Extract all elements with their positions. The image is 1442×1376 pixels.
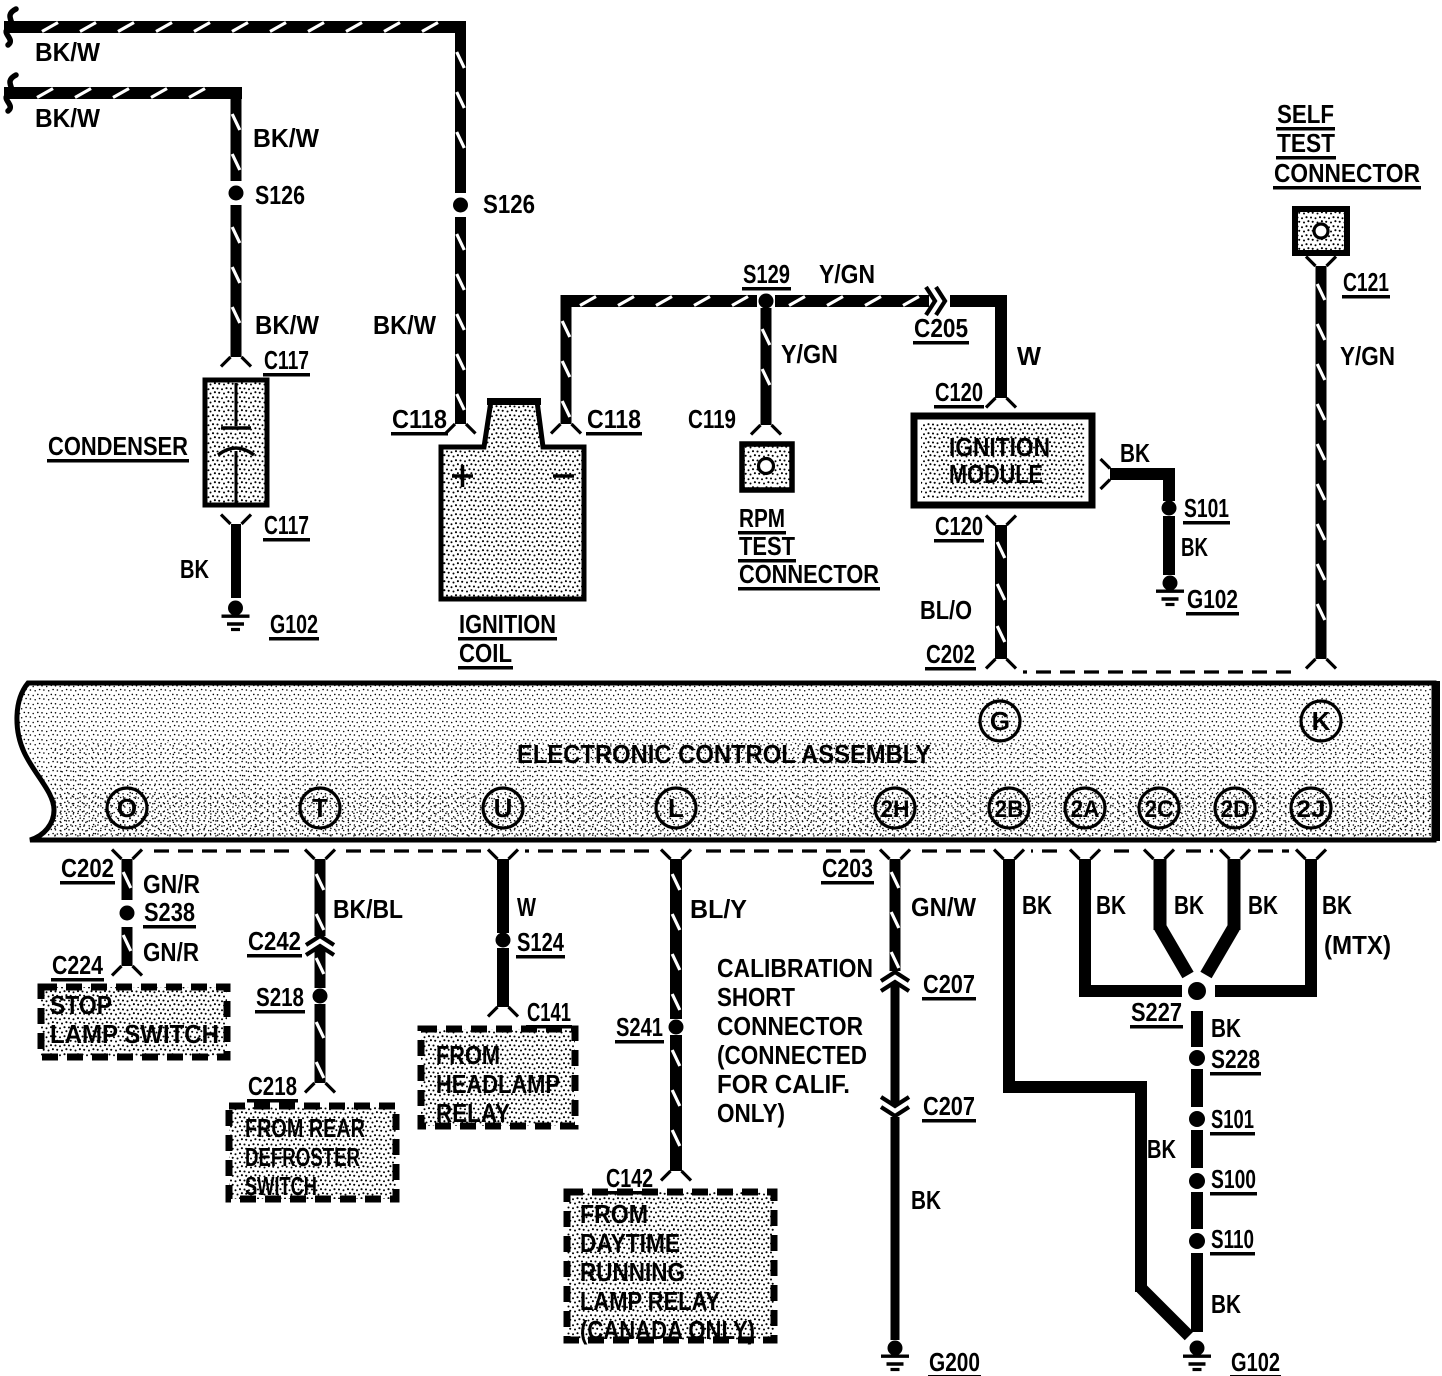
junction S228: [1189, 1050, 1205, 1066]
label S124: [516, 927, 565, 959]
svg-text:C141: C141: [527, 997, 571, 1027]
wire BK/W second horizontal: [4, 87, 242, 99]
connector C205 chevrons: [926, 287, 945, 315]
connector C207 lower chevrons: [881, 1097, 909, 1116]
svg-text:BK/W: BK/W: [35, 103, 100, 133]
ECA pin 2H: [875, 788, 915, 828]
connector fork above K pin: [1306, 659, 1336, 669]
label G102 bottom: [1230, 1347, 1281, 1376]
svg-text:C207: C207: [923, 969, 975, 999]
svg-text:S110: S110: [1211, 1224, 1254, 1254]
svg-text:C119: C119: [688, 404, 736, 434]
svg-text:C120: C120: [935, 511, 983, 541]
wire GN/W pin 2H: [890, 859, 901, 971]
label BK 2B: [1022, 890, 1052, 920]
svg-text:C218: C218: [248, 1071, 297, 1101]
ground G102 module: [1156, 576, 1184, 605]
wire BK S227 to S228: [1191, 1011, 1203, 1047]
svg-text:DEFROSTER: DEFROSTER: [245, 1142, 360, 1172]
label BL/Y: [690, 894, 747, 924]
label W pin U: [517, 892, 536, 922]
label C121: [1342, 267, 1390, 299]
label FROM REAR DEFROSTER SWITCH: [245, 1113, 365, 1201]
label C242: [247, 926, 302, 958]
svg-text:FROM: FROM: [580, 1199, 648, 1229]
label BK below S101: [1181, 532, 1208, 562]
wire Y/GN vertical to coil right C118: [561, 295, 572, 424]
label S101 chain: [1210, 1104, 1255, 1136]
label STOP LAMP SWITCH: [50, 990, 219, 1049]
headlamp relay box: [421, 1029, 575, 1126]
connector fork below pin 2H: [880, 850, 910, 860]
wire BK/BL below C242: [315, 947, 326, 988]
svg-text:G102: G102: [1187, 584, 1238, 614]
svg-text:BK: BK: [180, 554, 209, 584]
connector C224 fork: [112, 966, 142, 976]
self test connector body: [1295, 209, 1347, 253]
junction S124: [496, 933, 511, 948]
junction S227: [1188, 982, 1206, 1000]
svg-text:FROM: FROM: [436, 1040, 500, 1070]
svg-text:BK: BK: [1248, 890, 1278, 920]
svg-text:BK/BL: BK/BL: [333, 894, 403, 924]
wire BK pin 2C to S227: [1154, 859, 1189, 975]
label BK 2J: [1322, 890, 1352, 920]
svg-text:S241: S241: [616, 1012, 663, 1042]
ground G102 condenser: [222, 601, 250, 630]
connector C202 fork bottom of BL/O: [986, 659, 1016, 669]
svg-text:ELECTRONIC CONTROL ASSEMBLY: ELECTRONIC CONTROL ASSEMBLY: [517, 739, 931, 769]
wire GN/R pin O lower: [122, 927, 133, 966]
connector fork below pin 2C: [1144, 850, 1174, 860]
svg-text:BL/O: BL/O: [920, 595, 972, 625]
connector fork module right: [1101, 459, 1111, 489]
wire BK/W vertical to C118: [455, 27, 466, 424]
label G200: [928, 1347, 981, 1376]
label RPM TEST CONNECTOR: [738, 503, 880, 591]
label S100: [1210, 1164, 1257, 1196]
label GN/R lower: [143, 937, 199, 967]
svg-text:(CONNECTED: (CONNECTED: [717, 1040, 867, 1070]
svg-text:BK/W: BK/W: [253, 123, 319, 153]
connector C119 fork: [751, 425, 781, 435]
connector C120 fork top: [986, 398, 1016, 408]
electronic control assembly ECA body: [17, 681, 1440, 841]
wire BK S110 to G102: [1191, 1253, 1203, 1332]
svg-text:BL/Y: BL/Y: [690, 894, 747, 924]
svg-text:STOP: STOP: [50, 990, 112, 1020]
label BK module: [1120, 438, 1150, 468]
wire BK/BL S218 to C218: [315, 1004, 326, 1083]
wire BK pin 2D to S227: [1206, 859, 1241, 975]
wire BK (MTX) pin 2J to S227: [1215, 859, 1317, 997]
connector fork below pin O: [112, 850, 142, 860]
wire break symbol left end top wire: [6, 9, 16, 45]
svg-text:W: W: [1017, 341, 1041, 371]
wire Y/GN self test to ECA: [1316, 266, 1327, 659]
svg-text:C120: C120: [935, 377, 983, 407]
ECA pin U: [483, 788, 523, 828]
label C203: [821, 853, 874, 885]
svg-text:2C: 2C: [1145, 796, 1174, 823]
svg-text:S218: S218: [256, 982, 304, 1012]
svg-text:BK: BK: [1211, 1013, 1241, 1043]
svg-text:2H: 2H: [881, 796, 910, 823]
svg-text:C207: C207: [923, 1091, 975, 1121]
junction S101 right of module: [1162, 501, 1177, 516]
label S110: [1210, 1224, 1255, 1256]
svg-text:C118: C118: [587, 404, 641, 434]
junction S126 left: [229, 186, 244, 201]
label C205: [913, 313, 969, 345]
svg-text:2D: 2D: [1221, 796, 1250, 823]
svg-text:C202: C202: [926, 639, 975, 669]
label C119: [688, 404, 736, 434]
svg-text:RPM: RPM: [739, 503, 785, 533]
svg-text:CONDENSER: CONDENSER: [48, 431, 188, 461]
RPM test connector body: [742, 444, 792, 490]
connector C141 fork: [488, 1007, 518, 1017]
svg-text:G102: G102: [1231, 1347, 1280, 1376]
wire C202/C203 connector dashed line below ECA: [130, 849, 1316, 852]
label BK/W wire1: [35, 37, 100, 67]
label BK/BL: [333, 894, 403, 924]
svg-text:SHORT: SHORT: [717, 982, 795, 1012]
label BK 2C: [1174, 890, 1204, 920]
wire BK pin 2B down-right-down to G102: [1003, 859, 1189, 1336]
label C207 upper: [922, 969, 976, 1001]
label GN/W: [911, 892, 976, 922]
label (MTX): [1324, 930, 1391, 960]
ECA pin 2C: [1139, 788, 1179, 828]
svg-text:2A: 2A: [1071, 796, 1100, 823]
svg-text:BK: BK: [1181, 532, 1208, 562]
label G102 condenser: [269, 609, 319, 641]
ground G200: [881, 1341, 909, 1370]
svg-text:C121: C121: [1343, 267, 1389, 297]
label C118 right: [586, 404, 642, 436]
label BK 2B elbow: [1147, 1134, 1176, 1164]
coil - terminal mark: [553, 474, 574, 478]
label C141: [526, 997, 572, 1029]
ECA pin 2B: [989, 788, 1029, 828]
svg-text:HEADLAMP: HEADLAMP: [436, 1069, 560, 1099]
connector C117 fork above condenser: [221, 357, 251, 367]
svg-text:SWITCH: SWITCH: [245, 1171, 317, 1201]
label CALIBRATION SHORT CONNECTOR note: [717, 953, 873, 1128]
svg-text:S227: S227: [1131, 997, 1182, 1027]
dashed line gaps at connector forks: [105, 665, 1343, 858]
svg-text:(CANADA ONLY): (CANADA ONLY): [580, 1315, 755, 1345]
wire W pin U upper: [497, 859, 509, 933]
connector fork below pin T: [305, 850, 335, 860]
svg-text:BK: BK: [1120, 438, 1150, 468]
junction S100: [1189, 1173, 1205, 1189]
connector C120 fork bottom: [986, 516, 1016, 526]
svg-text:S126: S126: [483, 189, 535, 219]
label BK 2D: [1248, 890, 1278, 920]
wire BK S100 to S110: [1191, 1192, 1203, 1229]
wire BK/BL pin T upper: [315, 859, 326, 936]
label C118 left: [391, 404, 448, 436]
wire W from C205 to ignition module: [950, 295, 1007, 398]
ECA pin L: [656, 788, 696, 828]
svg-text:COIL: COIL: [459, 638, 512, 668]
connector fork below pin L: [661, 850, 691, 860]
svg-text:FROM REAR: FROM REAR: [245, 1113, 365, 1143]
svg-text:BK: BK: [1211, 1289, 1241, 1319]
svg-text:LAMP RELAY: LAMP RELAY: [580, 1286, 720, 1316]
svg-text:C118: C118: [392, 404, 447, 434]
svg-text:S101: S101: [1211, 1104, 1254, 1134]
label BK/W vert right: [373, 310, 436, 340]
connector fork below pin U: [488, 850, 518, 860]
svg-text:O: O: [117, 793, 137, 823]
label BK 2A: [1096, 890, 1126, 920]
svg-text:CALIBRATION: CALIBRATION: [717, 953, 873, 983]
svg-text:BK: BK: [911, 1185, 941, 1215]
label ELECTRONIC CONTROL ASSEMBLY: [517, 739, 931, 769]
svg-text:T: T: [312, 793, 328, 823]
junction S101 chain: [1189, 1111, 1205, 1127]
wire BK condenser to ground: [231, 524, 241, 598]
connector C118 fork right terminal: [551, 424, 581, 434]
label C117 lower: [263, 510, 310, 542]
wire break symbol left end second wire: [6, 75, 16, 111]
label SELF TEST CONNECTOR: [1273, 99, 1421, 190]
wire Y/GN horizontal S129 bus: [566, 295, 929, 307]
connector C117 fork below condenser: [221, 515, 251, 525]
ignition module body: [914, 416, 1092, 505]
svg-text:ONLY): ONLY): [717, 1098, 785, 1128]
label CONDENSER: [47, 431, 189, 463]
svg-text:K: K: [1312, 706, 1331, 736]
label C117 upper: [263, 345, 310, 377]
label S238: [143, 897, 196, 929]
label C120 bottom: [934, 511, 984, 543]
svg-text:LAMP SWITCH: LAMP SWITCH: [50, 1019, 219, 1049]
wire BK module to S101: [1110, 468, 1175, 501]
svg-text:IGNITION: IGNITION: [949, 432, 1050, 462]
label S126 left: [255, 180, 305, 210]
connector C218 fork: [305, 1083, 335, 1093]
label IGNITION COIL: [458, 609, 557, 670]
label FROM DAYTIME RUNNING LAMP RELAY: [580, 1199, 755, 1345]
label BK above G200: [911, 1185, 941, 1215]
svg-text:RELAY: RELAY: [436, 1098, 510, 1128]
ground G102 bottom: [1183, 1341, 1211, 1370]
wire BK/W top horizontal: [4, 21, 466, 33]
label BL/O: [920, 595, 972, 625]
svg-text:S238: S238: [144, 897, 195, 927]
label S227: [1130, 997, 1183, 1029]
connector fork below pin 2B: [994, 850, 1024, 860]
svg-text:C117: C117: [264, 510, 309, 540]
connector C142 fork: [661, 1171, 691, 1181]
stop lamp switch box: [41, 987, 227, 1057]
label C142: [605, 1163, 654, 1195]
svg-text:U: U: [494, 793, 513, 823]
connector C242 chevrons: [306, 936, 334, 955]
svg-text:RUNNING: RUNNING: [580, 1257, 685, 1287]
label C202 left: [60, 853, 115, 885]
rear defroster switch box: [229, 1106, 396, 1199]
label BK/W wire2: [35, 103, 100, 133]
svg-text:BK/W: BK/W: [35, 37, 100, 67]
svg-text:BK/W: BK/W: [373, 310, 436, 340]
svg-text:BK: BK: [1147, 1134, 1176, 1164]
svg-text:BK: BK: [1174, 890, 1204, 920]
label S129: [742, 259, 791, 291]
connector C118 fork left terminal: [446, 424, 476, 434]
svg-text:BK/W: BK/W: [255, 310, 319, 340]
label C120 top: [934, 377, 984, 409]
svg-text:Y/GN: Y/GN: [1340, 341, 1395, 371]
junction S110: [1189, 1233, 1205, 1249]
label S241: [615, 1012, 664, 1044]
wire W S124 to C141: [497, 948, 509, 1007]
ECA pin T: [300, 788, 340, 828]
connector fork below pin 2D: [1220, 850, 1250, 860]
junction S126 right: [453, 198, 468, 213]
label C207 lower: [922, 1091, 976, 1123]
label S101 module: [1183, 493, 1230, 525]
label S126 right: [483, 189, 535, 219]
label S228: [1210, 1044, 1261, 1076]
svg-text:CONNECTOR: CONNECTOR: [739, 559, 879, 589]
label W: [1017, 341, 1041, 371]
label C202 mid: [925, 639, 976, 671]
label G102 module: [1186, 584, 1239, 616]
label C218: [247, 1071, 298, 1103]
svg-text:DAYTIME: DAYTIME: [580, 1228, 680, 1258]
label BK/W above condenser: [255, 310, 319, 340]
ECA pin O: [107, 788, 147, 828]
svg-text:S126: S126: [255, 180, 305, 210]
label GN/R upper: [143, 869, 200, 899]
svg-text:G102: G102: [270, 609, 318, 639]
svg-text:S100: S100: [1211, 1164, 1256, 1194]
wire BK between C207 connectors: [891, 984, 900, 1104]
svg-text:C202: C202: [61, 853, 114, 883]
label FROM HEADLAMP RELAY: [436, 1040, 560, 1128]
svg-text:G: G: [990, 706, 1010, 736]
wire Y/GN from S129 down to C119: [761, 308, 772, 425]
label BK S227 chain: [1211, 1013, 1241, 1043]
label C224: [51, 950, 104, 982]
svg-text:GN/R: GN/R: [143, 937, 199, 967]
svg-text:Y/GN: Y/GN: [781, 339, 838, 369]
wire BK S228 to S101: [1191, 1069, 1203, 1107]
svg-text:L: L: [668, 793, 684, 823]
svg-text:CONNECTOR: CONNECTOR: [1274, 158, 1420, 188]
svg-text:C242: C242: [248, 926, 301, 956]
wire BK pin 2A to S227: [1079, 859, 1182, 997]
svg-text:C117: C117: [264, 345, 309, 375]
svg-text:2J: 2J: [1297, 796, 1326, 823]
label S218: [255, 982, 305, 1014]
coil + terminal mark: [452, 465, 473, 487]
svg-text:S129: S129: [743, 259, 790, 289]
svg-text:GN/W: GN/W: [911, 892, 976, 922]
wire BK/W vertical to condenser: [231, 93, 242, 357]
wire BK S101 to G102: [1163, 516, 1175, 575]
svg-text:W: W: [517, 892, 536, 922]
junction S218: [313, 989, 328, 1004]
connector fork below pin 2J: [1296, 850, 1326, 860]
wire C202 connector dashed line above ECA (G to K): [1012, 670, 1310, 673]
svg-text:IGNITION: IGNITION: [459, 609, 556, 639]
connector C121 fork: [1306, 257, 1336, 267]
label BK condenser: [180, 554, 209, 584]
wire BL/Y pin L upper: [670, 859, 682, 1019]
ECA pin 2D: [1215, 788, 1255, 828]
ECA pin G: [980, 701, 1020, 741]
junction S129: [759, 294, 774, 309]
svg-text:S228: S228: [1211, 1044, 1260, 1074]
daytime running lamp relay box: [567, 1192, 774, 1340]
wire GN/R pin O upper: [122, 859, 133, 900]
svg-text:C224: C224: [52, 950, 103, 980]
svg-text:TEST: TEST: [1277, 128, 1335, 158]
svg-text:BK: BK: [1096, 890, 1126, 920]
junction S238: [120, 906, 135, 921]
svg-text:C203: C203: [822, 853, 873, 883]
svg-text:BK: BK: [1022, 890, 1052, 920]
connector C207 upper chevrons: [881, 972, 909, 991]
label Y/GN drop: [781, 339, 838, 369]
svg-text:FOR CALIF.: FOR CALIF.: [717, 1069, 850, 1099]
wire BK C207 to G200: [891, 1117, 900, 1340]
svg-text:GN/R: GN/R: [143, 869, 200, 899]
label BK above G102: [1211, 1289, 1241, 1319]
svg-text:2B: 2B: [995, 796, 1024, 823]
svg-text:BK: BK: [1322, 890, 1352, 920]
svg-text:S124: S124: [517, 927, 564, 957]
ECA pin K: [1301, 701, 1341, 741]
ECA pin 2A: [1065, 788, 1105, 828]
wire BL/O module to C202: [995, 525, 1007, 659]
label BK/W mid left: [253, 123, 319, 153]
svg-text:Y/GN: Y/GN: [819, 259, 875, 289]
svg-text:SELF: SELF: [1277, 99, 1334, 129]
junction S241: [669, 1020, 684, 1035]
ECA pin 2J: [1291, 788, 1331, 828]
svg-text:C205: C205: [914, 313, 968, 343]
svg-text:G200: G200: [929, 1347, 980, 1376]
ignition coil body: [441, 398, 584, 599]
svg-text:(MTX): (MTX): [1324, 930, 1391, 960]
wire BL/Y S241 to C142: [670, 1035, 682, 1171]
label Y/GN self test: [1340, 341, 1395, 371]
svg-text:S101: S101: [1184, 493, 1229, 523]
svg-text:MODULE: MODULE: [949, 459, 1043, 489]
capacitor CONDENSER body: [205, 380, 267, 505]
label Y/GN bus: [819, 259, 875, 289]
svg-text:TEST: TEST: [739, 531, 795, 561]
connector fork below pin 2A: [1070, 850, 1100, 860]
label IGNITION MODULE: [949, 432, 1050, 489]
svg-text:CONNECTOR: CONNECTOR: [717, 1011, 863, 1041]
wire BK S101 to S100: [1191, 1130, 1203, 1168]
